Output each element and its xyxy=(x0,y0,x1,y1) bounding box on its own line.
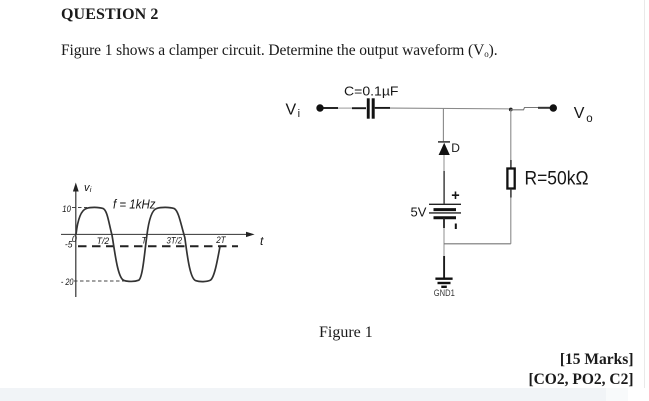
wire xyxy=(324,107,367,109)
bottom grey bar xyxy=(0,388,606,401)
label T/2 xyxy=(97,236,109,246)
label R=50kOhm xyxy=(525,169,589,190)
CO/PO label xyxy=(528,371,633,389)
resistor R xyxy=(507,169,514,189)
label C=0.1uF xyxy=(344,84,399,99)
svg-text:-5: -5 xyxy=(65,239,74,249)
label -5 xyxy=(65,239,74,249)
svg-text:C=0.1µF: C=0.1µF xyxy=(344,84,399,99)
svg-text:i: i xyxy=(90,185,92,194)
svg-text:5V: 5V xyxy=(411,205,427,220)
label Vo xyxy=(574,105,593,125)
y-axis xyxy=(73,183,79,298)
ground GND1 xyxy=(435,279,452,287)
label 10 xyxy=(62,204,71,214)
wire xyxy=(443,155,445,204)
svg-text:V: V xyxy=(286,102,297,119)
label -20 xyxy=(61,277,74,287)
wire (bottom rail) xyxy=(444,243,511,245)
label vi (axis) xyxy=(84,182,92,194)
label f = 1kHz xyxy=(113,198,156,212)
node junction (resistor branch) xyxy=(509,108,513,112)
wire xyxy=(510,189,512,244)
svg-text:i: i xyxy=(298,108,300,120)
label Vi xyxy=(286,102,301,121)
label t (axis) xyxy=(260,234,264,248)
svg-text:o: o xyxy=(586,113,592,125)
heading QUESTION 2 xyxy=(61,6,158,24)
node Vo xyxy=(550,104,557,111)
svg-text:3T/2: 3T/2 xyxy=(167,236,183,246)
wire xyxy=(443,218,445,279)
page right edge line xyxy=(644,0,645,388)
svg-text:t: t xyxy=(260,234,264,248)
caption Figure 1 xyxy=(319,324,373,342)
label + xyxy=(451,188,459,204)
capacitor C xyxy=(367,98,375,118)
battery 5V xyxy=(429,204,461,217)
label T xyxy=(142,236,149,246)
wire xyxy=(442,108,444,141)
label 5V xyxy=(411,205,427,220)
svg-text:f = 1kHz: f = 1kHz xyxy=(113,198,156,212)
sine waveform xyxy=(76,207,220,281)
label 3T/2 xyxy=(167,236,183,246)
svg-text:D: D xyxy=(451,141,460,155)
label - (battery minus) xyxy=(455,224,457,230)
wire (jog to Vo) xyxy=(511,108,550,110)
label 0 xyxy=(72,234,77,244)
svg-text:2T: 2T xyxy=(215,235,227,245)
wire xyxy=(375,108,511,109)
label 2T xyxy=(215,235,227,245)
svg-text:T/2: T/2 xyxy=(97,236,109,246)
x-axis xyxy=(61,232,255,237)
dashed guide to -20 trough xyxy=(74,280,127,282)
svg-text:GND1: GND1 xyxy=(434,288,455,298)
label GND1 xyxy=(434,288,455,298)
svg-text:10: 10 xyxy=(62,204,71,214)
svg-text:+: + xyxy=(451,188,459,204)
wire xyxy=(510,110,512,169)
svg-text:V: V xyxy=(574,105,585,122)
label D xyxy=(451,141,460,155)
svg-text:R=50kΩ: R=50kΩ xyxy=(525,169,589,190)
paragraph: question text xyxy=(61,42,497,60)
dashed level -5 xyxy=(78,245,238,247)
svg-text:- 20: - 20 xyxy=(61,277,74,287)
dashed guide to +10 peak xyxy=(72,207,87,209)
node Vi xyxy=(316,104,323,111)
diode D xyxy=(438,142,450,155)
svg-text:0: 0 xyxy=(72,234,77,244)
marks label xyxy=(560,351,634,369)
